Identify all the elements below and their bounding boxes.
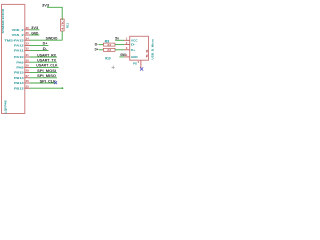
wire net SPI_CLK [30,82,57,84]
svg-text:SWDIO: SWDIO [46,37,58,41]
svg-text:25: 25 [26,84,30,88]
IC U1 body (STM32 symbol outline) [2,4,25,113]
svg-text:PB15: PB15 [14,71,24,75]
svg-text:22: 22 [107,43,111,47]
svg-text:27: 27 [26,74,30,78]
svg-text:PB12: PB12 [14,86,24,90]
pin 27 (PB14) stub [25,77,31,79]
svg-text:D-: D- [95,42,99,46]
svg-text:3V3: 3V3 [42,3,49,7]
svg-text:34: 34 [26,36,30,40]
wire 3V3 to R11 [47,7,62,20]
no-connect X on SPI_CLK wire end [54,81,57,84]
svg-text:D-: D- [43,47,48,51]
svg-text:PA8: PA8 [16,66,24,70]
svg-text:35: 35 [26,31,30,35]
svg-text:TMS-PA13: TMS-PA13 [4,38,24,42]
svg-text:28: 28 [26,69,30,73]
pin 33 (PA12) stub [25,44,31,46]
svg-text:33: 33 [26,42,30,46]
svg-text:GND: GND [131,55,138,59]
no-connect X on shield pin [140,67,143,70]
svg-text:R11: R11 [66,23,70,29]
svg-text:PA10: PA10 [14,55,24,59]
svg-text:USB_B_Micro: USB_B_Micro [151,39,155,60]
sheet origin cross marker [112,66,115,69]
wire net USART_TX [30,61,57,63]
svg-text:PA9: PA9 [16,60,24,64]
wire D- to R9 [99,44,104,46]
svg-text:GND: GND [31,31,39,35]
wire net D- [30,50,49,52]
svg-text:USART_TX: USART_TX [37,59,57,63]
svg-text:R10: R10 [105,56,111,60]
pin 26 (PB13) stub [25,82,31,84]
svg-text:31: 31 [26,53,30,57]
svg-text:36: 36 [26,26,30,30]
svg-text:26: 26 [26,79,30,83]
svg-text:D+: D+ [131,48,136,52]
wire net D+ [30,44,49,46]
pin 34 (TMS-PA13) stub [25,39,31,41]
USB shield pin stub [140,60,142,68]
svg-text:PB13: PB13 [14,81,24,85]
wire R10 to USB pin 3 [115,49,124,51]
wire net 3V3 [30,29,39,31]
USB pin 1 stub [124,39,129,41]
svg-text:D+: D+ [95,48,99,52]
wire net USART_RX [30,56,57,58]
svg-text:PA12: PA12 [14,44,24,48]
pin 36 (VDD_2) stub [25,29,31,31]
svg-text:PB14: PB14 [14,76,24,80]
svg-text:3V3: 3V3 [31,26,38,30]
wire 5v to USB pin 1 [115,39,124,41]
svg-text:PG: PG [133,62,138,66]
svg-text:R9: R9 [105,39,110,43]
wire R11 to SWDIO [61,31,63,40]
wire net SPI_MOSI [30,72,57,74]
wire GND to USB pin 4 [119,56,124,58]
svg-text:USART_RX: USART_RX [37,53,57,57]
wire net SWDIO [30,39,62,41]
wire R9 to USB pin 2 [115,44,124,46]
USB pin 3 stub [124,49,129,51]
resistor R11 body [60,19,64,31]
pin 29 (PA8) stub [25,66,31,68]
pin 32 (PA11) stub [25,50,31,52]
svg-text:SPI_MOSI: SPI_MOSI [37,69,56,73]
svg-text:30: 30 [26,58,30,62]
resistor R9 body [103,43,115,46]
svg-text:32: 32 [26,47,30,51]
USB pin 4 stub [124,56,129,58]
svg-text:D-: D- [131,43,135,47]
pin 30 (PA9) stub [25,61,31,63]
svg-text:STM32F103C8: STM32F103C8 [1,9,5,34]
wire net USART_CLK [30,66,59,68]
svg-text:SPI_MISO: SPI_MISO [37,74,56,78]
wire net SPI_MISO [30,77,57,79]
svg-text:VDD_2: VDD_2 [12,28,24,32]
pin 31 (PA10) stub [25,56,31,58]
wire D+ to R10 [99,49,104,51]
svg-text:VSS_2: VSS_2 [12,33,24,37]
USB connector J1 body [130,36,149,60]
pin 25 (PB12) stub [25,87,31,89]
pin 35 (VSS_2) stub [25,34,31,36]
svg-text:4.7K: 4.7K [61,21,65,30]
pin 28 (PB15) stub [25,72,31,74]
svg-text:USART_CLK: USART_CLK [36,64,58,68]
svg-text:22: 22 [107,48,111,52]
USB pin 2 stub [124,44,129,46]
resistor R10 body [103,48,115,51]
svg-text:LQFP48: LQFP48 [4,100,8,113]
junction at end of PB12 wire [62,87,64,89]
svg-text:PA11: PA11 [14,49,24,53]
svg-text:29: 29 [26,64,30,68]
svg-text:5 6: 5 6 [145,48,149,57]
wire PB12 unlabeled [30,87,63,89]
wire net GND [30,34,39,36]
svg-text:D+: D+ [43,42,48,46]
